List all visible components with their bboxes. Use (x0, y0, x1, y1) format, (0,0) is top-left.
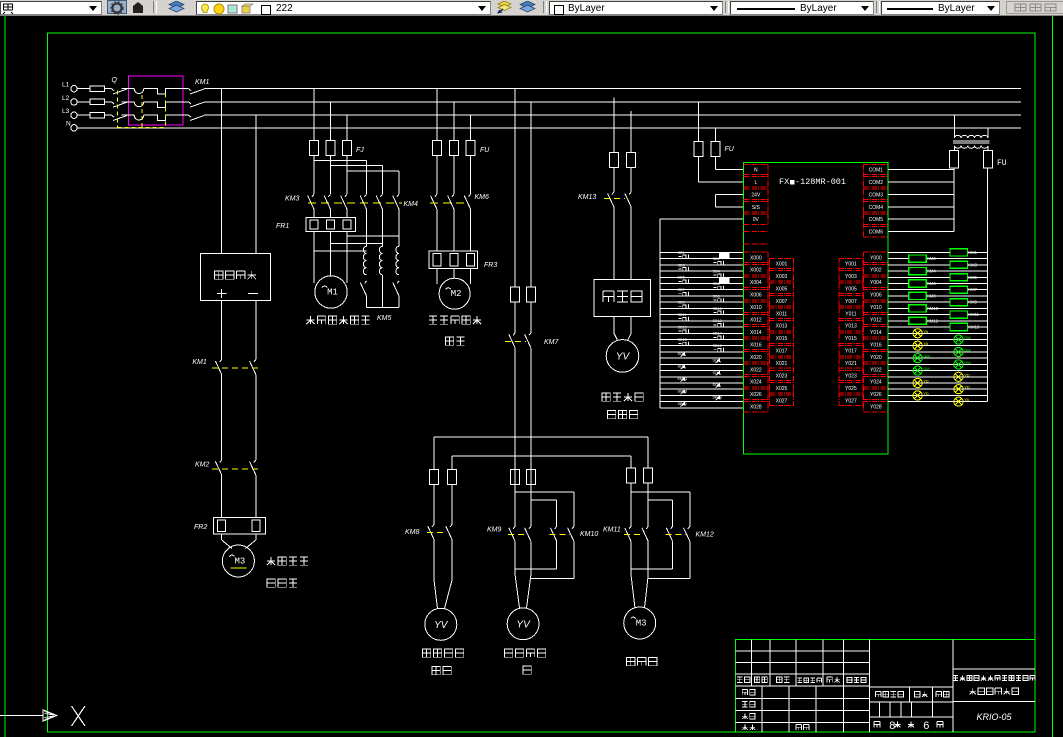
title block header labels (737, 677, 866, 730)
coil KM1 (950, 249, 978, 256)
svg-text:Y013: Y013 (845, 324, 857, 330)
wire battery drop from L1 (221, 89, 223, 254)
svg-text:FR3: FR3 (484, 262, 497, 269)
PLC terminal X023 (769, 370, 793, 380)
switch SB1 (678, 251, 689, 259)
switch SB8 (713, 294, 724, 302)
motor M2 aux compressor (439, 278, 470, 309)
svg-text:M2: M2 (451, 289, 462, 299)
svg-text:COM6: COM6 (869, 230, 884, 236)
PLC terminal column X odd rails (769, 258, 793, 405)
wire distribution line upper (434, 436, 648, 438)
fuse FJ c (343, 141, 352, 156)
svg-text:-128MR-001: -128MR-001 (795, 177, 846, 187)
svg-text:YD: YD (923, 380, 929, 384)
svg-text:SQ1: SQ1 (678, 352, 686, 356)
contactor KM2 contacts (195, 460, 262, 475)
PLC terminal S/S (744, 202, 769, 212)
PLC terminal 0V (744, 214, 769, 224)
PLC terminal Y028 (864, 401, 889, 411)
sensor block input row4 (720, 279, 730, 284)
wire KM11 to motor M3 (631, 541, 648, 608)
PLC terminal X021 (769, 358, 793, 368)
wire KM10 rejoin upper (515, 541, 557, 569)
svg-text:SB2: SB2 (713, 257, 720, 261)
PLC terminal X024 (744, 377, 769, 387)
coil KM12 (909, 317, 939, 324)
wire decoder drop from L2 (613, 98, 615, 153)
PLC terminal Y014 (864, 327, 889, 337)
switch SB5 (678, 276, 689, 284)
svg-text:GM: GM (964, 336, 970, 340)
svg-text:X025: X025 (776, 386, 788, 392)
reactor coil 2 (379, 246, 382, 274)
wire input row 21 (660, 382, 744, 384)
contactor KM1 label (195, 79, 210, 86)
lamp YA row 13 (913, 329, 929, 338)
sensor block input row0 (720, 254, 730, 259)
lamp YD row 22 (954, 385, 970, 394)
svg-text:FU: FU (480, 147, 490, 154)
wire input row 24 (660, 401, 744, 403)
PLC terminal Y012 (864, 314, 889, 324)
coil KM10 (909, 305, 939, 312)
fuse on L3 (77, 112, 111, 118)
overload relay FR1 (276, 218, 355, 232)
svg-text:SQ10: SQ10 (678, 390, 688, 394)
svg-text:Y011: Y011 (845, 311, 857, 317)
svg-text:X024: X024 (750, 380, 762, 386)
switch SQ10 (678, 390, 688, 395)
wire distribution line lower (452, 455, 631, 457)
PLC terminal X017 (769, 345, 793, 355)
contactor KM7 contacts (505, 333, 560, 348)
wire COM4 (888, 206, 954, 208)
svg-text:SB10: SB10 (713, 307, 722, 311)
svg-text:KM4: KM4 (404, 201, 419, 208)
contactor KM1 contact L2 (189, 102, 205, 107)
svg-text:SB7: SB7 (678, 288, 685, 292)
title block sheet row (874, 721, 943, 733)
svg-text:X004: X004 (750, 280, 762, 286)
contactor KM6 contacts (430, 194, 489, 209)
node L2 terminal (62, 95, 77, 105)
fuse branch2 b (526, 469, 535, 484)
svg-text:FR2: FR2 (194, 524, 207, 531)
PLC terminal X016 (744, 339, 769, 349)
solenoid valve YV2 gate (507, 608, 539, 640)
svg-text:Y014: Y014 (870, 330, 882, 336)
svg-text:X017: X017 (776, 349, 788, 355)
svg-text:SB11: SB11 (678, 313, 687, 317)
wire input row 8 (660, 301, 744, 303)
wire COM bus (953, 168, 955, 232)
lamp YD row 21 (913, 378, 929, 387)
svg-text:6: 6 (923, 721, 930, 733)
wire KM1 to KM2 (222, 375, 256, 460)
wire drop to fuse FU b (453, 102, 455, 141)
PLC terminal Y001 (839, 258, 863, 268)
PLC terminal column Y even rails (863, 252, 865, 412)
PLC FX2-128MR-001 body (744, 163, 889, 455)
switch SB2 (713, 257, 724, 265)
linkage KM3 KM4 (308, 202, 402, 204)
svg-text:Y024: Y024 (870, 380, 882, 386)
wire input row 4 (660, 276, 744, 278)
label FU PLC (725, 146, 735, 153)
wire fuses to KM8 (434, 484, 452, 524)
contactor KM11 contacts (603, 526, 648, 541)
svg-text:SB9: SB9 (678, 301, 685, 305)
svg-text:YV: YV (616, 351, 631, 362)
contactor KM3 contacts (285, 194, 347, 209)
battery pack box (200, 254, 270, 301)
wire 24V S/S jumper (715, 194, 743, 206)
fuse branch1 a (430, 469, 439, 484)
PLC terminal Y017 (839, 345, 863, 355)
wire branch2 bypass jog upper (515, 492, 574, 526)
wire KM7 drop from L1 (514, 89, 516, 287)
coil KM3 (950, 261, 978, 268)
svg-text:L: L (754, 180, 757, 186)
contactor KM4 contacts (360, 194, 418, 209)
switch SQ4 (713, 371, 721, 376)
wire branch3 drops (631, 437, 648, 468)
fuse FU c (466, 141, 475, 156)
svg-text:KM3: KM3 (285, 196, 300, 203)
PLC terminal X022 (744, 364, 769, 374)
wire input row 13 (660, 332, 744, 334)
PLC spare separator a (744, 231, 769, 233)
motor M3 diesel starter (222, 545, 254, 577)
wire jog to KM4 phase2 (331, 166, 383, 195)
wire transformer primary lead a (953, 115, 955, 138)
svg-text:KM2: KM2 (195, 462, 210, 469)
svg-text:KM9: KM9 (968, 300, 977, 305)
switch KM11 (678, 377, 688, 382)
wire output row 2 (888, 264, 987, 266)
breaker Q linkage (116, 91, 118, 128)
svg-text:KM11: KM11 (603, 527, 621, 534)
wire output row 21 (888, 382, 987, 384)
motor M3 discharger (624, 607, 656, 639)
svg-text:X013: X013 (776, 324, 788, 330)
svg-text:X001: X001 (776, 262, 788, 268)
svg-text:SB14: SB14 (713, 332, 722, 336)
label electric gate valve (504, 649, 545, 674)
svg-text:GM: GM (964, 348, 970, 352)
svg-text:KM10: KM10 (927, 306, 939, 311)
svg-text:Q: Q (112, 77, 118, 84)
svg-text:SQ4: SQ4 (713, 371, 721, 375)
svg-text:SQ9: SQ9 (713, 383, 721, 387)
solenoid valve YV two-position (606, 340, 639, 373)
switch SB3 (678, 263, 689, 271)
motor M1 main compressor (315, 276, 347, 308)
title block drawing number (976, 712, 1012, 722)
svg-text:KM3: KM3 (968, 262, 977, 267)
svg-text:Y005: Y005 (845, 286, 857, 292)
wire input row 19 (660, 370, 744, 372)
svg-text:0V: 0V (753, 217, 760, 223)
coil KM8 (909, 292, 937, 299)
breaker trip element L3 (122, 115, 189, 121)
coil KM13 (950, 323, 980, 330)
switch SB11 (678, 313, 689, 321)
wire KM13 to decoder (614, 207, 631, 280)
switch SQ3 (678, 365, 686, 370)
svg-text:KM11: KM11 (968, 312, 979, 317)
svg-text:KM7: KM7 (968, 287, 977, 292)
svg-text:M3: M3 (636, 619, 647, 629)
svg-text:KM12: KM12 (696, 532, 714, 539)
svg-text:Y016: Y016 (870, 342, 882, 348)
svg-text:KM1: KM1 (192, 359, 207, 366)
PLC terminal Y023 (839, 370, 863, 380)
wire input row 2 (660, 264, 744, 266)
contactor KM13 contacts (578, 192, 631, 207)
switch SB13 (678, 326, 689, 334)
wire decoder to valve YV (614, 317, 631, 341)
svg-text:Y007: Y007 (845, 299, 857, 305)
svg-text:SB16: SB16 (713, 344, 722, 348)
PLC terminal Y000 (864, 252, 889, 262)
wire KM3 to FR1 (314, 209, 347, 217)
switch SB7 (678, 288, 689, 296)
svg-text:Y006: Y006 (870, 293, 882, 299)
lamp GM row 18 (954, 360, 971, 369)
wire L3 main (204, 114, 1021, 116)
wire L1 main (204, 88, 1021, 90)
wire input row 10 (660, 314, 744, 316)
wire KM4 to reactors (367, 209, 400, 246)
svg-text:YV: YV (516, 619, 531, 630)
svg-text:KM1: KM1 (968, 250, 977, 255)
breaker Q blade L2 (112, 102, 128, 107)
svg-text:X021: X021 (776, 361, 788, 367)
wire output row 4 (888, 276, 987, 278)
contactor KM9 contacts (487, 526, 531, 541)
label main air compressor (306, 316, 369, 324)
coil KM11 (950, 311, 980, 318)
wire output row 23 (888, 395, 987, 397)
wire output row 24 (888, 401, 987, 403)
svg-text:Y012: Y012 (870, 318, 882, 324)
wire output row 14 (888, 339, 987, 341)
wire output row 15 (888, 345, 987, 347)
contactor KM5 contacts (360, 281, 399, 322)
svg-text:KRIO-05: KRIO-05 (976, 712, 1012, 722)
PLC terminal X012 (744, 314, 769, 324)
svg-text:Y022: Y022 (870, 367, 882, 373)
wire branch3 bypass jog lower (648, 500, 672, 526)
svg-text:X002: X002 (750, 268, 762, 274)
wire drop to fuse FJ a (313, 89, 315, 141)
wire output row 0 (888, 251, 987, 253)
PLC terminal column Y odd rails (839, 258, 863, 405)
svg-text:24V: 24V (751, 192, 761, 198)
wire output row 19 (888, 370, 987, 372)
wire output row 16 (888, 351, 987, 353)
svg-text:SB5: SB5 (678, 276, 685, 280)
PLC terminal X010 (744, 302, 769, 312)
wire tap M1 phase2 to reactor2 (331, 243, 383, 245)
wire secondary lead b (987, 146, 989, 151)
breaker trip element L2 (122, 102, 189, 108)
title block project name (953, 675, 1035, 694)
transformer TC (953, 135, 990, 148)
svg-text:KM5: KM5 (968, 275, 977, 280)
svg-text:SB13: SB13 (678, 326, 687, 330)
svg-text:KM4: KM4 (927, 269, 936, 274)
svg-text:KM11: KM11 (678, 377, 688, 381)
coil KM5 (950, 274, 978, 281)
switch SB10 (713, 307, 724, 315)
svg-text:COM1: COM1 (869, 168, 884, 174)
svg-text:X014: X014 (750, 330, 762, 336)
PLC terminal Y021 (839, 358, 863, 368)
fuse FJ a (310, 141, 319, 156)
svg-text:KM8: KM8 (927, 293, 936, 298)
wire fuses to KM3 (314, 156, 347, 195)
fuse FJ b (326, 141, 335, 156)
svg-text:SB8: SB8 (713, 294, 720, 298)
PLC spare separator b (744, 243, 769, 245)
svg-text:X012: X012 (750, 318, 762, 324)
switch SB16 (713, 344, 724, 352)
wire output row 11 (888, 320, 987, 322)
svg-text:SQ3: SQ3 (678, 365, 686, 369)
svg-text:KM5: KM5 (377, 315, 392, 322)
lamp YA row 15 (913, 341, 929, 350)
breaker Q label (112, 77, 118, 84)
overload relay FR2 (194, 518, 266, 534)
wire output row 12 (888, 326, 987, 328)
PLC terminal N (744, 164, 769, 174)
label FJ (356, 147, 364, 154)
PLC terminal COM6 (864, 226, 889, 236)
svg-text:SQ2: SQ2 (713, 358, 721, 362)
wire drop to fuse FJ b (330, 102, 332, 141)
wire input row 0 (660, 251, 744, 253)
wire 0V common (660, 218, 744, 220)
wire output row 13 (888, 332, 987, 334)
svg-text:YD: YD (964, 373, 970, 377)
wire input bus (659, 219, 661, 408)
switch SQ9 (713, 383, 721, 388)
coil KM6 (909, 280, 937, 287)
PLC model label (779, 177, 846, 187)
svg-text:Y020: Y020 (870, 355, 882, 361)
wire drop to fuse FU c (470, 115, 472, 140)
wire KM7 down to distribution (515, 348, 531, 527)
wire drop to fuse FU a (436, 89, 438, 141)
wire N from terminal (77, 127, 1021, 129)
fuse decoder b (627, 152, 636, 167)
fuse on L1 (77, 86, 111, 92)
svg-text:GM: GM (923, 355, 929, 359)
wire output row 20 (888, 376, 987, 378)
svg-text:X003: X003 (776, 274, 788, 280)
svg-text:X007: X007 (776, 299, 788, 305)
svg-text:KM10: KM10 (580, 531, 598, 538)
svg-text:SB12: SB12 (713, 319, 722, 323)
lamp YA row 24 (954, 397, 970, 406)
PLC terminal Y024 (864, 377, 889, 387)
svg-text:Y017: Y017 (845, 349, 857, 355)
reactor coil 1 (363, 246, 366, 274)
PLC terminal COM2 (864, 177, 889, 187)
PLC terminal X007 (769, 296, 793, 306)
label two-position three-way (602, 393, 643, 419)
svg-text:Y001: Y001 (845, 262, 857, 268)
contactor KM12 contacts (666, 526, 714, 541)
lamp YD row 20 (954, 372, 970, 381)
wire COM2 (888, 181, 954, 183)
breaker linkage 2 (164, 94, 166, 128)
lamp GM row 14 (954, 335, 971, 344)
contactor KM1 contact L1 (189, 89, 205, 94)
title block stage row (876, 692, 949, 697)
wire input row 17 (660, 357, 744, 359)
wire input row 5 (660, 283, 744, 285)
svg-text:Y003: Y003 (845, 274, 857, 280)
PLC terminal Y011 (839, 308, 863, 318)
fuse KM7 a (511, 287, 520, 302)
fuse on L2 (77, 99, 111, 105)
title block grid (736, 639, 1036, 732)
coil KM4 (909, 268, 937, 275)
svg-text:KM6: KM6 (475, 194, 490, 201)
svg-text:X027: X027 (776, 398, 788, 404)
contactor KM1 contact L3 (189, 115, 205, 120)
svg-text:Y004: Y004 (870, 280, 882, 286)
wire input row 11 (660, 320, 744, 322)
wire KM12 rejoin lower (648, 541, 690, 578)
fuse decoder a (609, 152, 618, 167)
svg-text:KM9: KM9 (487, 527, 502, 534)
wire fuse to PLC N terminal (715, 156, 743, 169)
PLC terminal Y016 (864, 339, 889, 349)
svg-text:SB4: SB4 (713, 270, 720, 274)
fuse output side (983, 150, 992, 168)
coil KM7 (950, 286, 978, 293)
svg-text:SB3: SB3 (678, 263, 685, 267)
svg-text:KM13: KM13 (968, 325, 980, 330)
PLC terminal X027 (769, 395, 793, 405)
paper edge line left (4, 16, 6, 737)
breaker Q blade L1 (112, 89, 128, 94)
svg-text:N: N (754, 168, 758, 174)
svg-text:FU: FU (997, 159, 1007, 168)
svg-text:KM7: KM7 (544, 339, 560, 346)
PLC terminal X005 (769, 283, 793, 293)
wire input row 18 (660, 363, 744, 365)
wire PLC L drop (698, 102, 700, 141)
lamp YD row 23 (913, 391, 929, 400)
wire output row 18 (888, 363, 987, 365)
PLC terminal column COM rails (863, 164, 865, 237)
wire output row 5 (888, 283, 987, 285)
contactor KM10 contacts (550, 526, 599, 541)
svg-text:COM2: COM2 (869, 180, 884, 186)
wire KM5 star bus (367, 275, 400, 308)
PLC terminal Y007 (839, 296, 863, 306)
svg-text:Y026: Y026 (870, 392, 882, 398)
wire KM8 to valve YV1 (434, 540, 452, 609)
lamp GM row 19 (913, 366, 930, 375)
svg-text:Y010: Y010 (870, 305, 882, 311)
